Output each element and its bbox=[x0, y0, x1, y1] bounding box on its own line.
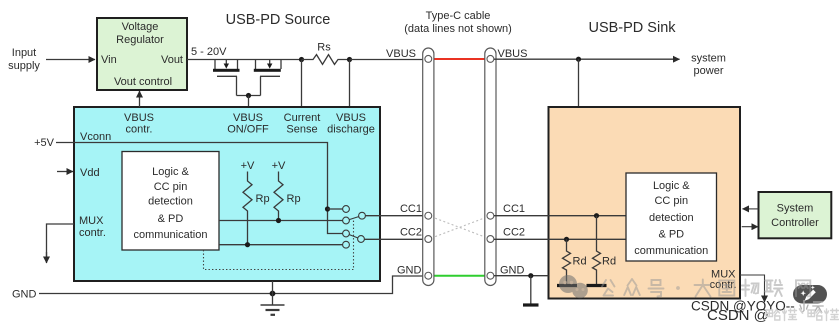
svg-text:detection: detection bbox=[649, 212, 694, 224]
wire: lower CC line from logic bbox=[219, 244, 343, 246]
svg-text:Voltage: Voltage bbox=[122, 21, 159, 33]
svg-text:Logic &: Logic & bbox=[653, 180, 690, 192]
svg-text:5 - 20V: 5 - 20V bbox=[191, 46, 227, 58]
op-amp U2: USB-PD source controller box (cyan) bbox=[74, 107, 380, 281]
ground (Rd left bar) bbox=[557, 284, 577, 287]
svg-text:CC2: CC2 bbox=[400, 227, 422, 239]
glyph 小 bbox=[800, 301, 808, 312]
svg-text:VBUS: VBUS bbox=[336, 112, 366, 124]
svg-text:Sense: Sense bbox=[286, 124, 317, 136]
svg-text:ON/OFF: ON/OFF bbox=[227, 124, 269, 136]
label Vdd with arrow bbox=[57, 171, 73, 173]
wire: CC1 into sink logic bbox=[494, 215, 626, 217]
wire: VBUS contr. to Vout control (arrow up) bbox=[139, 91, 141, 107]
svg-text:Vdd: Vdd bbox=[80, 167, 100, 179]
wire: Vout rail to FETs bbox=[187, 59, 302, 61]
svg-text:Logic &: Logic & bbox=[152, 166, 189, 178]
node: sink GND junction bbox=[528, 273, 533, 278]
svg-text:MUX: MUX bbox=[79, 215, 104, 227]
glyph 号 bbox=[649, 280, 664, 297]
svg-text:VBUS: VBUS bbox=[233, 112, 263, 124]
svg-text:System: System bbox=[777, 203, 814, 215]
svg-text:GND: GND bbox=[500, 265, 525, 277]
svg-text:Rd: Rd bbox=[602, 256, 616, 268]
wire: dashed MUX control to switches bbox=[204, 220, 354, 270]
svg-text:USB-PD Source: USB-PD Source bbox=[226, 12, 331, 28]
resistor Rs bbox=[302, 55, 350, 65]
svg-text:detection: detection bbox=[148, 196, 193, 208]
resistor Rp (left) bbox=[243, 172, 252, 245]
svg-text:discharge: discharge bbox=[327, 124, 375, 136]
svg-text:(data lines not shown): (data lines not shown) bbox=[404, 23, 512, 35]
svg-text:power: power bbox=[694, 65, 724, 77]
svg-text:system: system bbox=[691, 53, 726, 65]
wire: controller to sink (arrow left) bbox=[743, 208, 759, 210]
svg-text:+V: +V bbox=[272, 160, 286, 172]
svg-text:communication: communication bbox=[634, 245, 708, 257]
node: CC2 to Rd junction bbox=[564, 237, 569, 242]
svg-text:VBUS: VBUS bbox=[386, 48, 416, 60]
svg-text:GND: GND bbox=[397, 265, 422, 277]
svg-text:Vconn: Vconn bbox=[80, 131, 111, 143]
wire: CC2 out to plug bbox=[364, 238, 425, 240]
cable line CC crossover (dotted X) bbox=[431, 217, 488, 239]
logic block U3a: sink logic bbox=[626, 173, 717, 261]
glyph 大 bbox=[695, 280, 712, 297]
node: vconn junction bbox=[325, 206, 330, 211]
connector J2 (right plug) bbox=[485, 48, 496, 286]
wire: sink MUX contr. out with down arrow bbox=[740, 275, 765, 297]
connector J2 pins bbox=[487, 55, 494, 279]
wire: sink to controller (arrow right) bbox=[742, 226, 758, 228]
resistor Rd (right) bbox=[593, 216, 601, 285]
glyph 公 bbox=[602, 280, 615, 296]
cable line GND (green) bbox=[430, 275, 489, 277]
wire: CC1 out to plug bbox=[365, 215, 425, 217]
svg-text:Rp: Rp bbox=[256, 193, 270, 205]
wire: VBUS rail to left plug bbox=[350, 59, 424, 61]
logic block U2a: Logic & CC pin detection bbox=[122, 152, 219, 251]
voltage regulator U1 labels bbox=[101, 21, 183, 88]
glyph 懂 (2nd) bbox=[825, 309, 839, 321]
svg-text:CC2: CC2 bbox=[503, 227, 525, 239]
svg-text:CSDN @: CSDN @ bbox=[707, 307, 769, 322]
transistor Q1 (PMOS pass FET) bbox=[213, 60, 240, 96]
svg-text:Vin: Vin bbox=[101, 54, 117, 66]
node: sink VBUS junction bbox=[576, 57, 581, 62]
node: current sense tap bbox=[299, 57, 304, 62]
connector J1 pins bbox=[425, 55, 432, 279]
wire: CC2 into sink logic bbox=[494, 238, 626, 240]
watermark CSDN pill bbox=[793, 285, 827, 304]
glyph 众 bbox=[624, 279, 640, 295]
glyph · (separator dot) bbox=[676, 286, 680, 290]
glyph 懂 bbox=[783, 309, 797, 321]
glyph 联 bbox=[765, 280, 783, 296]
connector J1 (left plug) bbox=[423, 48, 434, 286]
wire: vconn to switch contact bbox=[328, 208, 343, 210]
svg-text:Type-C cable: Type-C cable bbox=[426, 10, 491, 22]
glyph 物 bbox=[742, 280, 759, 297]
svg-text:Input: Input bbox=[12, 47, 36, 59]
ground (sink, bar) bbox=[530, 276, 532, 304]
pin labels: top row of controller bbox=[124, 112, 375, 136]
glyph 略 bbox=[766, 310, 780, 321]
svg-text:& PD: & PD bbox=[658, 229, 684, 241]
ground (source, 3-bar) bbox=[261, 305, 285, 315]
cable line VBUS (red) bbox=[430, 58, 489, 60]
svg-text:GND: GND bbox=[12, 289, 37, 301]
wire: GND rail bbox=[39, 276, 425, 294]
svg-text:USB-PD Sink: USB-PD Sink bbox=[588, 20, 676, 36]
svg-text:VBUS: VBUS bbox=[498, 48, 528, 60]
resistor Rd (left) bbox=[563, 239, 571, 284]
svg-text:CC1: CC1 bbox=[400, 203, 422, 215]
voltage regulator U1 box bbox=[97, 18, 187, 90]
watermark text row 1: 公众号 · 大国物联网 (vector glyphs) bbox=[602, 279, 810, 297]
node: Rp right junction bbox=[276, 218, 281, 223]
wire: Vconn rail across box bbox=[74, 143, 343, 234]
switch S1: arm CC2 bbox=[349, 235, 358, 238]
op-amp U3: USB-PD sink controller box (peach) bbox=[549, 107, 741, 299]
svg-text:communication: communication bbox=[134, 229, 208, 241]
node: gate junction bbox=[246, 93, 251, 98]
node: VBUS discharge tap bbox=[347, 57, 352, 62]
svg-text:Vout: Vout bbox=[161, 54, 183, 66]
wire: +5V into Vconn bbox=[56, 142, 74, 144]
wire: upper CC line from logic bbox=[219, 220, 343, 222]
wire: VBUS into sink box bbox=[578, 59, 580, 107]
svg-text:Rp: Rp bbox=[287, 193, 301, 205]
wire: GND into sink box bbox=[494, 275, 549, 277]
glyph 略 (2nd) bbox=[808, 310, 822, 321]
wire: box bottom to GND bbox=[272, 281, 274, 305]
system controller U4 box bbox=[759, 192, 832, 238]
node: CC1 to Rd junction bbox=[594, 213, 599, 218]
switch S1: contacts bbox=[343, 206, 366, 249]
svg-text:& PD: & PD bbox=[158, 213, 184, 225]
svg-text:CC1: CC1 bbox=[503, 203, 525, 215]
switch S1: arm CC1 bbox=[349, 217, 359, 220]
svg-text:Rs: Rs bbox=[317, 42, 331, 54]
svg-text:Current: Current bbox=[284, 112, 321, 124]
svg-text:supply: supply bbox=[8, 60, 40, 72]
wire: current sense drop bbox=[301, 60, 303, 108]
wire: VBUS to system power bbox=[494, 58, 680, 60]
glyph 网 bbox=[796, 280, 810, 296]
ground (Rd right bar) bbox=[587, 284, 607, 287]
node: GND junction bbox=[270, 291, 276, 297]
resistor Rp (right) bbox=[274, 172, 283, 221]
wire: gate tie of Q1/Q2 bbox=[237, 95, 261, 97]
wire: gate to VBUS ON/OFF pin bbox=[248, 96, 250, 108]
watermark blobs bbox=[559, 275, 588, 298]
svg-text:+V: +V bbox=[241, 160, 255, 172]
svg-text:+5V: +5V bbox=[34, 137, 55, 149]
glyph 、 bbox=[800, 309, 803, 313]
svg-text:contr.: contr. bbox=[126, 124, 153, 136]
svg-text:Rd: Rd bbox=[573, 256, 587, 268]
svg-text:CC pin: CC pin bbox=[154, 181, 188, 193]
svg-text:CC pin: CC pin bbox=[654, 195, 688, 207]
wire: input supply to Vin with arrow bbox=[46, 59, 95, 61]
svg-text:Vout control: Vout control bbox=[114, 76, 172, 88]
wire: VBUS discharge drop bbox=[349, 60, 351, 108]
transistor Q2 (PMOS pass FET) bbox=[254, 60, 281, 96]
node: Rp left junction bbox=[245, 242, 250, 247]
svg-text:Regulator: Regulator bbox=[116, 34, 164, 46]
svg-text:contr.: contr. bbox=[79, 227, 106, 239]
glyph 国 bbox=[719, 281, 734, 296]
svg-text:VBUS: VBUS bbox=[124, 112, 154, 124]
svg-text:Controller: Controller bbox=[771, 217, 819, 229]
node: Input supply label bbox=[8, 47, 40, 72]
glyph 天 bbox=[813, 302, 823, 313]
